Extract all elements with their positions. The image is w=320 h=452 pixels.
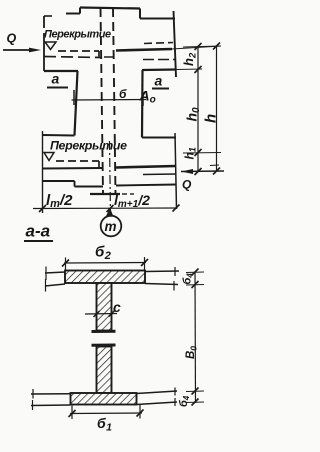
svg-text:а: а [155,73,163,89]
leader arrow up to dim line [106,208,114,217]
top flange (hatched) [65,271,145,284]
lower slab thick line through column [116,166,176,168]
lower slab top left [43,134,75,137]
dimension line b (column width) [72,99,147,102]
extension line top (h top) [183,46,221,47]
svg-text:а-а: а-а [26,222,51,241]
force Q upper arrow [3,49,32,51]
top break step up [79,8,81,14]
wall lines left of top flange [45,272,65,273]
section right dimension line [194,272,197,403]
slash ticks [192,269,199,406]
lower web end cap [92,344,116,347]
c slash ticks [94,311,115,317]
level mark triangle lower [44,153,54,161]
upper web end cap [92,330,116,333]
top break line left segment [66,13,80,15]
bottom flange (hatched) [71,393,137,405]
svg-text:б4: б4 [182,273,195,285]
svg-text:h2: h2 [181,52,199,66]
svg-text:m: m [105,219,117,234]
lower slab hidden line y161 [56,160,99,162]
wall lines left of bottom flange [31,393,71,395]
dimension line h0 (inner) [197,47,199,172]
hidden line corner [98,161,100,167]
svg-text:В0: В0 [185,346,199,359]
column hidden edge right (dashed) [113,8,116,194]
+ ticks left [45,267,47,281]
storey index circle m [101,216,122,237]
+ ticks right [174,388,176,396]
left cut edge upper slab [43,16,45,28]
tick at left face [73,90,75,105]
web of upper tee (hatched) [97,283,112,331]
lower slab line right y174 [143,173,176,176]
extension line h0/h1 boundary [183,152,221,155]
+ ticks left [32,389,34,399]
upper slab thick line through column [116,49,172,51]
svg-text:h0: h0 [184,107,203,122]
b1 extension verticals [71,406,73,420]
upper slab line right y59 [143,59,175,61]
force Q lower arrow line [181,170,224,173]
lower slab top right [142,137,176,139]
b1 slash ticks [69,410,144,418]
slash ticks [39,205,180,213]
svg-text:Перекрытие: Перекрытие [50,139,127,153]
top break step down [139,9,141,19]
extension to dimension lines [172,46,221,49]
svg-text:б1: б1 [97,415,113,434]
right cut edge upper slab [174,11,177,77]
column left face [75,71,78,136]
top break line main [80,8,140,9]
dimension b2 line [64,262,146,265]
svg-text:Q: Q [182,178,192,192]
bottom step [74,181,76,187]
upper slab hidden line y51 [58,50,99,52]
right cut edge lower slab [175,133,177,209]
tick at right face [142,92,144,106]
+ ticks right [174,267,176,276]
tick horizontals [186,272,204,403]
upper slab dashed line y56.5 [44,57,102,58]
svg-text:с: с [113,299,121,315]
extension of slab soffit to dims [176,68,202,71]
column right face [141,70,144,138]
b2 extension verticals [65,258,67,272]
svg-text:б2: б2 [95,244,111,263]
upper slab hidden line corner [98,51,100,57]
wall lines right of bottom flange [137,391,178,394]
svg-text:h: h [203,114,220,123]
lower slab bottom right [116,185,176,186]
slash ticks on dim lines [195,43,221,176]
upper slab bottom right [142,68,176,71]
dimension line h (outer) [216,46,218,171]
column stub break line below slab [90,193,120,195]
svg-text:б: б [119,87,127,101]
lower slab: left cut edge [42,131,44,213]
bottom left segment 2 [75,186,104,188]
dimension c line [85,313,117,316]
svg-text:h1: h1 [183,147,198,159]
top break line right segment [140,18,175,20]
lower slab bottom left [43,180,75,182]
column hidden edge left (dashed) [101,8,104,194]
bottom dimension line l [33,207,177,210]
svg-text:Ао: Ао [139,88,156,106]
lower slab line y168 left [43,167,103,170]
svg-text:lm/2: lm/2 [46,192,73,210]
wall lines right of top flange [145,270,179,273]
upper slab dashed line right y43 [144,43,173,44]
web of lower tee (hatched) [97,347,112,394]
upper slab bottom left [44,70,78,72]
left cut edge top tick [44,15,52,17]
level mark triangle upper [45,42,56,50]
svg-text:а: а [52,71,60,87]
dimension b1 line [70,412,142,415]
b2 slash ticks [62,259,148,267]
svg-text:Q: Q [7,32,17,46]
small dash at column zone y57 [104,56,114,58]
column centerline (dash-dot) [110,141,111,216]
small tick line near h bottom [210,164,219,167]
svg-text:б4: б4 [178,395,191,407]
